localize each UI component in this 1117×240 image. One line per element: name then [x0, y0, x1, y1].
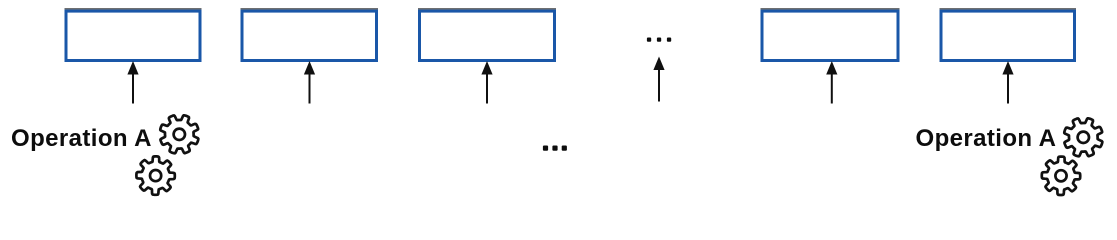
arrow up into box 1 [127, 61, 138, 104]
gray top edge line of box 3 [418, 8, 556, 10]
gear icon left top [160, 115, 198, 153]
box 5 [941, 11, 1075, 60]
arrow up into box 2 [304, 61, 315, 104]
arrow up into box 5 [1002, 61, 1013, 104]
arrow up into box 3 [481, 61, 492, 104]
svg-text:Operation A: Operation A [916, 125, 1057, 152]
gear icon right bottom [1042, 157, 1080, 195]
box 2 [242, 11, 377, 60]
arrow up toward ellipsis [653, 57, 664, 102]
arrow up into box 4 [826, 61, 837, 104]
gear icon left bottom [136, 156, 174, 194]
gray top edge line of box 5 [940, 8, 1077, 10]
box 3 [420, 11, 555, 60]
box 1 [66, 11, 200, 60]
gear icon right top [1064, 118, 1102, 156]
gray top edge line of box 4 [761, 8, 900, 10]
gray top edge line of box 1 [65, 8, 202, 10]
top ellipsis dots [647, 38, 671, 42]
bottom ellipsis dots [543, 146, 567, 151]
box 4 [762, 11, 898, 60]
svg-text:Operation A: Operation A [11, 125, 152, 152]
gray top edge line of box 2 [241, 8, 379, 10]
